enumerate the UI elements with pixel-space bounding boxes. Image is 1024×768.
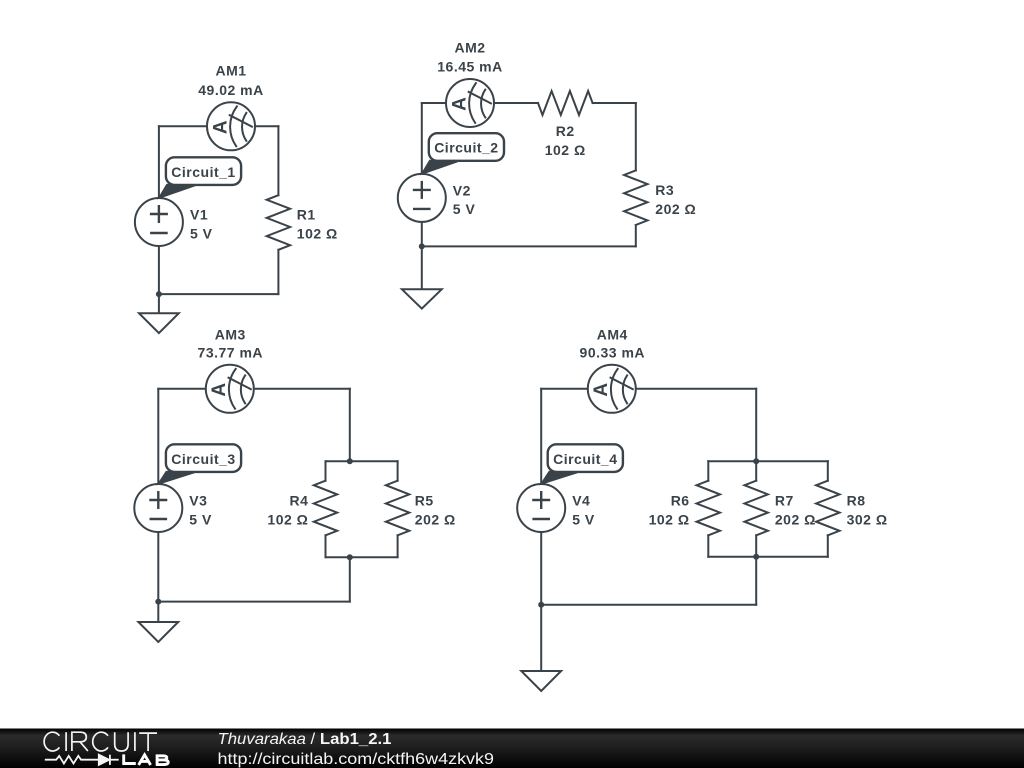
wire C4 top-left segment bbox=[541, 388, 612, 390]
wire C1 top-left segment bbox=[159, 125, 231, 127]
wire C2 R3 bottom lead bbox=[635, 225, 637, 246]
svg-text:5 V: 5 V bbox=[572, 512, 595, 528]
wire C1 right (top to R1) bbox=[277, 126, 279, 195]
logo LAB wordmark bbox=[124, 754, 169, 765]
wire C1 V1 bottom bbox=[158, 246, 160, 294]
wire C1 bottom segment bbox=[159, 293, 279, 295]
node C3 ground junction bbox=[155, 599, 161, 605]
resistor R8 bbox=[816, 481, 839, 536]
svg-text:AM2: AM2 bbox=[454, 40, 485, 56]
node C4 ground junction bbox=[538, 602, 544, 608]
wire C4 R8 top stub bbox=[827, 461, 829, 481]
wire C3 bottom segment bbox=[158, 601, 349, 603]
voltage source V1 bbox=[135, 198, 183, 246]
svg-text:V2: V2 bbox=[453, 182, 471, 198]
voltage source V4 bbox=[517, 484, 565, 532]
svg-text:16.45 mA: 16.45 mA bbox=[437, 58, 502, 74]
wire C2 left (V2 to top) bbox=[421, 103, 423, 174]
wire C3 top-left segment bbox=[158, 388, 230, 390]
svg-text:202 Ω: 202 Ω bbox=[415, 512, 456, 528]
node C1 junction bbox=[156, 291, 162, 297]
voltage source V3 bbox=[134, 484, 182, 532]
node C3 rail top junction bbox=[347, 458, 353, 464]
svg-text:R6: R6 bbox=[671, 493, 690, 509]
ammeter AM3 bbox=[206, 365, 254, 413]
node C2 junction bbox=[419, 243, 425, 249]
svg-text:AM4: AM4 bbox=[597, 326, 628, 342]
resistor R2 bbox=[538, 91, 593, 115]
ground C4 bbox=[521, 605, 561, 691]
svg-text:102 Ω: 102 Ω bbox=[267, 512, 308, 528]
wire C4 bottom segment bbox=[541, 604, 756, 606]
svg-text:V3: V3 bbox=[189, 493, 207, 509]
svg-text:R8: R8 bbox=[847, 493, 866, 509]
wire C4 bottom rail bbox=[708, 556, 828, 558]
wire C3 bottom rail bbox=[326, 556, 398, 558]
svg-text:V1: V1 bbox=[190, 207, 208, 223]
ammeter AM2 bbox=[446, 79, 494, 127]
svg-text:R4: R4 bbox=[289, 493, 308, 509]
svg-text:Circuit_4: Circuit_4 bbox=[553, 451, 617, 467]
svg-text:R2: R2 bbox=[556, 123, 575, 139]
svg-text:5 V: 5 V bbox=[189, 512, 212, 528]
wire C3 R5 top stub bbox=[397, 461, 399, 481]
svg-text:A: A bbox=[591, 382, 612, 396]
svg-text:Circuit_2: Circuit_2 bbox=[434, 140, 498, 156]
logo resistor-diode glyph bbox=[45, 755, 119, 765]
wire C4 R7 bottom stub bbox=[755, 535, 757, 557]
svg-text:202 Ω: 202 Ω bbox=[775, 512, 816, 528]
label Circuit_4 callout bbox=[542, 444, 623, 483]
wire C1 left (V1 to top) bbox=[158, 126, 160, 198]
ground C1 bbox=[139, 294, 179, 333]
svg-text:http://circuitlab.com/cktfh6w4: http://circuitlab.com/cktfh6w4zkvk9 bbox=[218, 751, 495, 768]
svg-text:73.77 mA: 73.77 mA bbox=[198, 345, 263, 361]
wire C3 top rail bbox=[326, 460, 398, 462]
svg-text:5 V: 5 V bbox=[190, 226, 213, 242]
svg-text:V4: V4 bbox=[572, 493, 590, 509]
label Circuit_1 callout bbox=[159, 157, 241, 197]
svg-text:5 V: 5 V bbox=[453, 201, 476, 217]
svg-text:102 Ω: 102 Ω bbox=[649, 512, 690, 528]
voltage source V2 bbox=[398, 174, 446, 222]
svg-text:102 Ω: 102 Ω bbox=[297, 226, 338, 242]
wire C2 right (top to R3) bbox=[635, 103, 637, 170]
wire C4 top rail bbox=[708, 460, 828, 462]
node C4 rail bottom junction bbox=[753, 554, 759, 560]
svg-text:49.02 mA: 49.02 mA bbox=[198, 82, 263, 98]
wire C2 ammeter to R2 bbox=[494, 102, 538, 104]
svg-text:R5: R5 bbox=[415, 493, 434, 509]
ground C3 bbox=[138, 602, 178, 642]
svg-text:90.33 mA: 90.33 mA bbox=[580, 345, 645, 361]
wire C3 left (V3 to top) bbox=[157, 389, 159, 484]
svg-text:A: A bbox=[210, 120, 231, 134]
svg-text:AM1: AM1 bbox=[215, 62, 246, 78]
wire C2 top-left segment bbox=[422, 102, 470, 104]
ground C2 bbox=[402, 246, 442, 308]
wire C2 V2 bottom bbox=[421, 222, 423, 247]
wire C3 feed (top to rail) bbox=[349, 389, 351, 461]
wire C1 top-right segment bbox=[231, 125, 278, 127]
svg-text:102 Ω: 102 Ω bbox=[545, 142, 586, 158]
wire C4 feed (top to rail) bbox=[755, 389, 757, 461]
resistor R1 bbox=[267, 195, 290, 250]
wire C2 R2 to corner bbox=[593, 102, 636, 104]
svg-text:302 Ω: 302 Ω bbox=[847, 512, 888, 528]
svg-text:Circuit_1: Circuit_1 bbox=[171, 164, 235, 180]
svg-text:Circuit_3: Circuit_3 bbox=[171, 451, 235, 467]
logo CIRCUIT wordmark bbox=[44, 732, 157, 751]
wire C2 bottom segment bbox=[422, 245, 636, 247]
svg-text:A: A bbox=[449, 97, 470, 111]
svg-text:202 Ω: 202 Ω bbox=[655, 201, 696, 217]
svg-text:R3: R3 bbox=[655, 182, 674, 198]
ammeter AM1 bbox=[207, 102, 255, 150]
resistor R7 bbox=[745, 481, 768, 536]
resistor R5 bbox=[386, 481, 409, 536]
wire C4 V4 bottom bbox=[540, 532, 542, 605]
wire C1 R1 bottom lead bbox=[277, 250, 279, 294]
resistor R3 bbox=[624, 170, 647, 225]
wire C4 R8 bottom stub bbox=[827, 535, 829, 557]
node C3 rail bottom junction bbox=[347, 554, 353, 560]
wire C4 left (V4 to top) bbox=[540, 389, 542, 484]
label Circuit_3 callout bbox=[159, 444, 241, 483]
resistor R4 bbox=[314, 481, 337, 536]
ammeter AM4 bbox=[588, 365, 636, 413]
wire C3 rail to bottom bbox=[349, 557, 351, 601]
svg-text:AM3: AM3 bbox=[215, 326, 246, 342]
label Circuit_2 callout bbox=[422, 133, 504, 173]
wire C4 rail to bottom bbox=[755, 557, 757, 605]
wire C3 R4 bottom stub bbox=[325, 535, 327, 557]
wire C3 R4 top stub bbox=[325, 461, 327, 481]
wire C4 R7 top stub bbox=[755, 461, 757, 481]
svg-text:A: A bbox=[209, 382, 230, 396]
svg-text:Thuvarakaa / Lab1_2.1: Thuvarakaa / Lab1_2.1 bbox=[218, 731, 392, 748]
wire C4 R6 bottom stub bbox=[707, 535, 709, 557]
node C4 rail top junction bbox=[753, 458, 759, 464]
wire C4 top-right segment bbox=[612, 388, 756, 390]
svg-text:R1: R1 bbox=[297, 207, 316, 223]
wire C3 V3 bottom bbox=[157, 532, 159, 602]
svg-text:R7: R7 bbox=[775, 493, 794, 509]
resistor R6 bbox=[697, 481, 720, 536]
wire C3 R5 bottom stub bbox=[397, 535, 399, 557]
wire C4 R6 top stub bbox=[707, 461, 709, 481]
wire C3 top-right segment bbox=[230, 388, 350, 390]
